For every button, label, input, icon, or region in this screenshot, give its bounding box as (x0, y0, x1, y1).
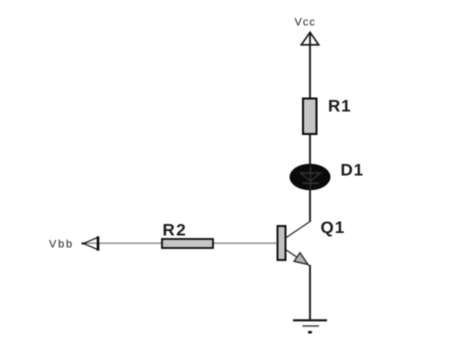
resistor R1 (303, 99, 317, 135)
emitter diagonal (286, 250, 311, 267)
svg-text:R1: R1 (328, 97, 351, 116)
collector diagonal (286, 222, 311, 239)
svg-text:Vbb: Vbb (49, 239, 74, 251)
svg-text:D1: D1 (341, 161, 364, 180)
wire base (Vbb to Q1 base) (84, 242, 277, 244)
ground (293, 320, 327, 333)
wire D1 to Q1 collector (309, 188, 311, 222)
power symbol Vcc (301, 32, 318, 45)
power symbol Vbb (82, 236, 99, 250)
svg-text:Vcc: Vcc (295, 17, 316, 29)
transistor Q1 (278, 222, 311, 267)
base bar (278, 226, 286, 260)
LED D1 (290, 164, 331, 190)
wire emitter to ground (309, 265, 311, 320)
wire R1 to D1 (309, 134, 311, 166)
resistor R2 (162, 239, 213, 248)
svg-text:Q1: Q1 (321, 218, 346, 237)
emitter arrowhead (294, 253, 308, 265)
svg-text:R2: R2 (163, 220, 188, 239)
wire Vcc to R1 (309, 33, 311, 99)
